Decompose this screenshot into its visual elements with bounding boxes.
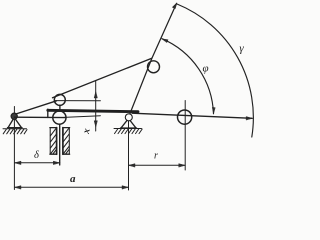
stem between rollers xyxy=(59,105,61,110)
lever arm from O2 (extreme position ray) xyxy=(129,4,177,117)
lower roller on slider xyxy=(53,111,66,124)
coupler rod tangent over upper roller to lever joint xyxy=(53,58,152,98)
right roller xyxy=(178,110,192,124)
a-dimension line with arrows xyxy=(15,186,129,188)
x-dimension arrow up xyxy=(94,92,97,99)
pivot support triangle O1 xyxy=(8,118,23,128)
ground hatching left support xyxy=(3,129,27,134)
upper roller xyxy=(54,94,65,105)
thin link line from O1 to lower roller xyxy=(14,116,66,118)
phi arc lower arrowhead xyxy=(212,107,215,113)
extension line through right roller down to r-dimension xyxy=(184,101,186,171)
pivot support triangle O2 xyxy=(121,119,137,129)
link from pivot O1 to upper roller xyxy=(16,101,57,114)
extension line from O1 down to dimension lines xyxy=(13,107,15,190)
x-dimension extension line upper xyxy=(55,100,101,102)
x-dimension vertical line xyxy=(95,81,97,131)
svg-text:r: r xyxy=(154,151,158,162)
r-dimension line with arrows xyxy=(129,164,186,166)
slider guide left block xyxy=(50,128,57,155)
phi arc upper arrowhead xyxy=(162,39,168,43)
svg-text:a: a xyxy=(70,173,76,185)
pivot O1 xyxy=(11,113,17,119)
pivot O2 circle xyxy=(125,114,132,121)
ground hatching right support xyxy=(114,129,142,134)
slider guide right block xyxy=(63,128,70,155)
step at left end of rail xyxy=(47,109,49,117)
joint roller on lever xyxy=(148,61,160,73)
x-dimension extension line lower xyxy=(64,116,100,118)
phi angle arc xyxy=(162,39,214,114)
x-dimension arrow down xyxy=(94,121,97,127)
gamma angle arc xyxy=(177,4,253,137)
rail (thick bar) xyxy=(48,110,138,111)
axis end arrowhead touching gamma arc xyxy=(246,117,252,120)
extension line from O2 down to dimension lines xyxy=(128,121,130,190)
svg-text:φ: φ xyxy=(202,63,208,75)
horizontal link from O2 to right roller and reference axis xyxy=(132,113,252,118)
slider stem xyxy=(59,124,61,165)
b-dimension line with arrows xyxy=(15,162,60,164)
lever tip arrowhead xyxy=(172,3,177,9)
svg-text:γ: γ xyxy=(239,43,244,55)
